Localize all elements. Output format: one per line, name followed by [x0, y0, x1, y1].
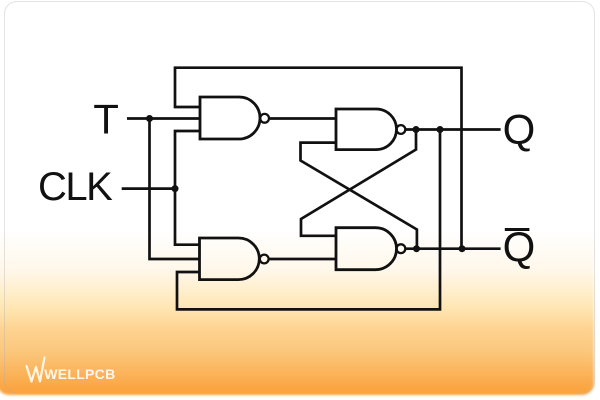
svg-text:Q: Q	[503, 105, 536, 152]
svg-text:T: T	[93, 95, 119, 142]
svg-text:CLK: CLK	[38, 165, 113, 209]
svg-text:WELLPCB: WELLPCB	[44, 366, 115, 382]
